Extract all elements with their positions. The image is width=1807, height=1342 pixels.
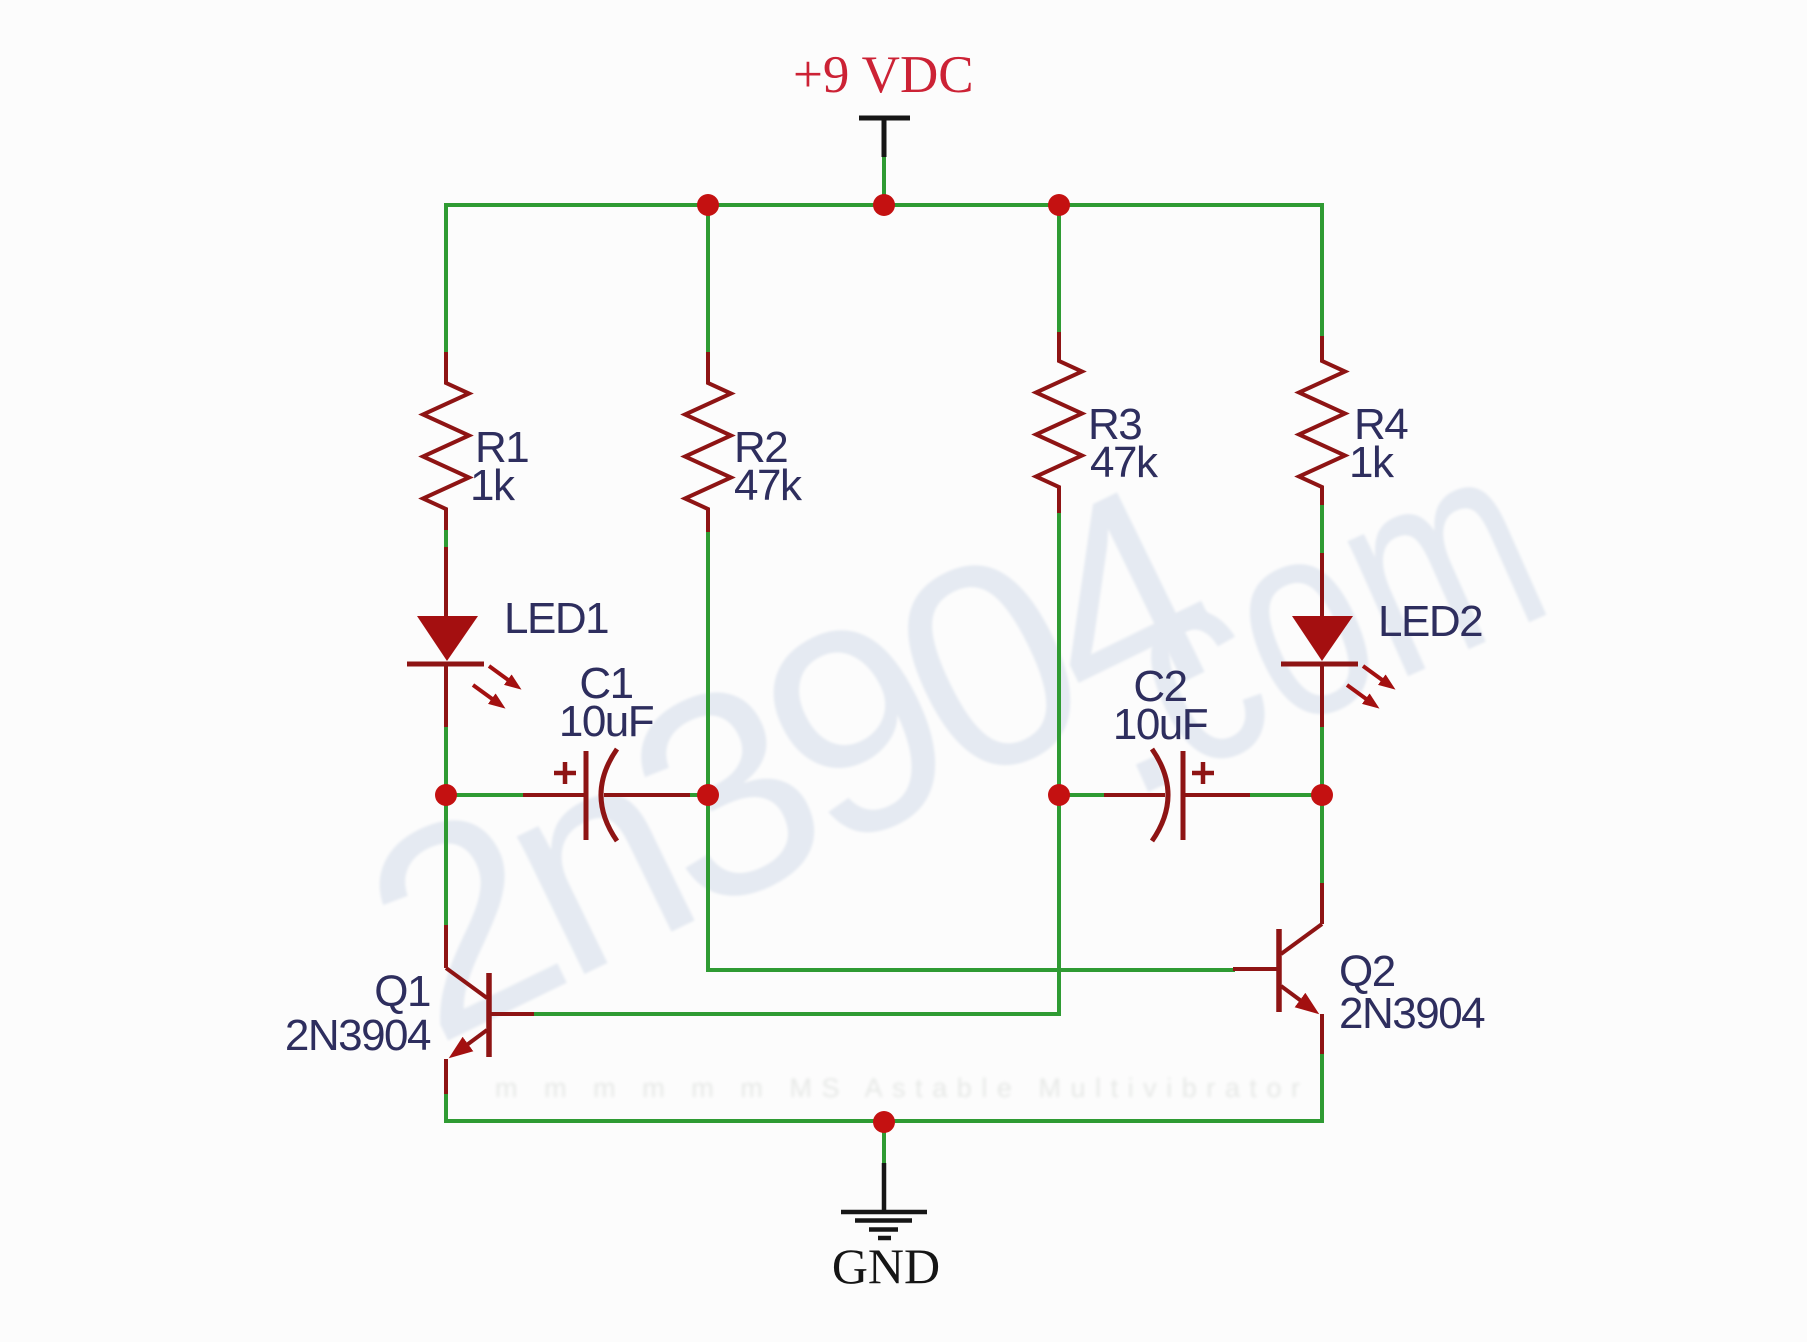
svg-text:m m m m m m MS Astable: m m m m m m MS Astable Multivibrator: [495, 1073, 1310, 1103]
svg-text:GND: GND: [832, 1238, 940, 1294]
svg-text:10uF: 10uF: [559, 697, 654, 746]
svg-text:47k: 47k: [1090, 438, 1159, 487]
svg-text:2N3904: 2N3904: [1339, 989, 1485, 1038]
svg-text:47k: 47k: [734, 461, 803, 510]
svg-text:2N3904: 2N3904: [285, 1011, 431, 1060]
svg-text:LED2: LED2: [1378, 597, 1482, 646]
svg-text:1k: 1k: [470, 461, 516, 510]
svg-text:LED1: LED1: [504, 594, 608, 643]
svg-text:1k: 1k: [1349, 438, 1395, 487]
svg-text:Q1: Q1: [374, 967, 430, 1016]
svg-text:+9 VDC: +9 VDC: [793, 46, 974, 104]
svg-text:10uF: 10uF: [1113, 700, 1208, 749]
